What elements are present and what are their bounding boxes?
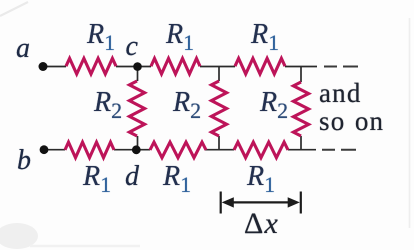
wire vertical stub R2#1 bottom to node d [137, 136, 139, 150]
wire bottom rail b to R1#1 [47, 149, 65, 151]
dimension arrow delta-x with end ticks [221, 192, 301, 214]
resistor R1 top second [151, 58, 200, 74]
wire top rail R1#1 to R1#2 through node c [116, 66, 151, 68]
node d junction dot [132, 145, 141, 154]
resistor R1 bottom second [150, 142, 206, 158]
label R1 top first [87, 19, 115, 56]
wire vertical stub top rail to R2#2 [218, 67, 220, 82]
terminal a dot [39, 62, 48, 71]
scan artifact bottom streak [30, 245, 140, 248]
wire bottom rail R1#1 to R1#2 through node d [114, 149, 150, 151]
label delta-x [244, 207, 279, 241]
wire bottom rail R1#2 to R1#3 through junction [205, 149, 234, 151]
label and so on [319, 79, 384, 135]
label d [125, 161, 139, 193]
resistor R1 bottom first [65, 142, 114, 158]
scan artifact bottom-left smudge [0, 223, 38, 249]
wire top rail R1#3 to right end [285, 66, 317, 68]
resistor R1 bottom third [234, 142, 288, 158]
label a [16, 33, 30, 65]
label c [126, 31, 138, 63]
node c junction dot [133, 62, 142, 71]
wire vertical stub R2#3 to bottom rail [300, 136, 302, 150]
wire top rail a to R1#1 [46, 66, 66, 68]
resistor R1 top first [66, 58, 116, 74]
label R2 first [94, 87, 122, 124]
wire vertical stub c to R2#1 top [137, 67, 139, 82]
resistor R2 vertical second [211, 81, 226, 136]
wire top rail dashed continuation [324, 66, 358, 68]
label R2 third [260, 87, 288, 124]
label R2 second [173, 87, 201, 124]
wire bottom rail dashed continuation [322, 149, 356, 151]
wire vertical stub R2#2 to bottom rail [218, 136, 220, 150]
resistor R1 top third [235, 58, 285, 74]
label R1 top second [166, 19, 194, 56]
resistor R2 vertical third [293, 82, 308, 136]
wire bottom rail R1#3 to right end [288, 149, 316, 151]
label R1 bottom second [163, 161, 191, 198]
scan artifact right edge line [409, 18, 411, 228]
label R1 bottom first [83, 161, 111, 198]
wire vertical stub top rail to R2#3 [300, 67, 302, 83]
wire top rail R1#2 to R1#3 through junction [200, 66, 235, 68]
label R1 top third [251, 19, 279, 56]
label b [17, 145, 31, 177]
label R1 bottom third [247, 161, 275, 198]
resistor R2 vertical first [129, 81, 144, 136]
terminal b dot [40, 145, 49, 154]
scan artifact top-left diagonal streak [0, 2, 28, 16]
